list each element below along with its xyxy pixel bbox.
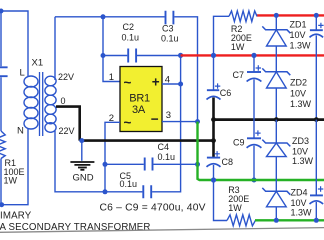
svg-text:~: ~ <box>124 75 132 90</box>
wire R3 riser <box>214 180 228 221</box>
svg-text:3A: 3A <box>132 104 146 116</box>
svg-text:C8: C8 <box>222 157 234 167</box>
ground rail left black <box>80 139 214 142</box>
resistor R1 <box>0 131 5 159</box>
zener ZD3 <box>262 120 290 192</box>
svg-text:ZD2: ZD2 <box>290 77 307 87</box>
svg-text:22V: 22V <box>58 72 74 82</box>
node bottom-left junction <box>0 202 4 207</box>
node black corner <box>211 138 216 143</box>
wire C7 to C9 <box>253 80 255 138</box>
svg-text:ZD1: ZD1 <box>290 19 307 29</box>
node C2 wire tee <box>101 53 106 58</box>
wire C10 bottom <box>315 35 317 119</box>
wire C4 branch <box>105 163 198 165</box>
wire R2 riser <box>214 16 230 55</box>
node gnd tee <box>79 138 84 143</box>
node top-left <box>0 9 4 14</box>
svg-text:N: N <box>17 126 24 137</box>
node C10 black <box>314 117 319 122</box>
rail green upper <box>198 122 324 180</box>
svg-text:1W: 1W <box>228 203 242 213</box>
transformer X1 secondary winding <box>45 76 56 132</box>
rail red top right <box>257 14 324 16</box>
wire C11 bottom <box>315 202 317 220</box>
svg-text:C9: C9 <box>233 138 245 148</box>
wire secondary top tap riser <box>54 17 56 80</box>
wire top-left to primary <box>1 11 28 76</box>
svg-text:ZD4: ZD4 <box>291 188 308 198</box>
node C4 right on green <box>195 162 200 167</box>
svg-text:3: 3 <box>166 110 171 121</box>
svg-text:~: ~ <box>124 115 132 130</box>
svg-text:10V: 10V <box>292 146 308 156</box>
svg-text:1: 1 <box>109 72 114 83</box>
svg-text:−: − <box>151 112 159 127</box>
node pin3 green <box>195 119 200 124</box>
node C5 / pin2 tee <box>103 189 108 194</box>
node ZD2 black <box>274 117 279 122</box>
svg-text:0.1u: 0.1u <box>161 34 179 44</box>
node C11 green <box>314 218 319 223</box>
capacitor C4 <box>145 158 153 171</box>
capacitor C11 electrolytic right bottom <box>315 120 317 195</box>
svg-text:10V: 10V <box>291 198 307 208</box>
node top rail / pin1 riser <box>101 14 106 19</box>
svg-text:C4: C4 <box>158 142 170 152</box>
svg-text:C7: C7 <box>233 70 245 80</box>
zener ZD1 <box>262 15 290 71</box>
svg-text:C6 – C9 = 4700u, 40V: C6 – C9 = 4700u, 40V <box>100 203 206 214</box>
capacitor C8 electrolytic <box>212 141 215 157</box>
svg-text:X1: X1 <box>32 58 44 69</box>
node C7 red <box>251 53 256 58</box>
wire center tap black <box>56 107 80 141</box>
svg-text:1W: 1W <box>4 175 18 185</box>
wire pin4 to riser and down to C5 <box>152 55 181 191</box>
svg-text:1W: 1W <box>231 42 245 52</box>
capacitor C10 electrolytic right top <box>315 15 317 29</box>
svg-text:GND: GND <box>73 173 94 184</box>
svg-text:10V: 10V <box>290 88 306 98</box>
node red rail start <box>178 53 183 58</box>
capacitor C1 (cropped at left edge) <box>0 67 8 76</box>
wire primary bottom lead <box>1 129 28 205</box>
transformer X1 primary winding <box>24 76 38 129</box>
wire pin2 down <box>105 122 120 192</box>
transformer core <box>40 72 43 136</box>
svg-text:ZD3: ZD3 <box>292 136 309 146</box>
svg-text:+: + <box>152 75 160 90</box>
capacitor C3 <box>166 11 174 25</box>
bridge rectifier U BR1 <box>120 67 162 132</box>
svg-text:1.3W: 1.3W <box>290 41 312 51</box>
svg-text:0.1u: 0.1u <box>158 152 176 162</box>
wire bottom rail from secondary <box>55 131 142 192</box>
ground symbol <box>81 141 83 161</box>
svg-text:C2: C2 <box>123 22 135 32</box>
wire top rail <box>55 17 198 122</box>
svg-text:L: L <box>20 67 25 78</box>
node pin4 riser <box>178 82 183 87</box>
svg-text:0: 0 <box>61 96 66 106</box>
wire pin1 riser <box>103 17 120 82</box>
svg-text:1.3W: 1.3W <box>290 99 312 109</box>
wire C8 bottom <box>213 165 215 180</box>
svg-text:0.1u: 0.1u <box>120 179 138 189</box>
svg-text:22V: 22V <box>59 126 75 136</box>
rail green lower <box>255 219 324 221</box>
capacitor C7 electrolytic <box>253 55 255 71</box>
wire left edge vertical <box>0 11 2 205</box>
svg-text:0.1u: 0.1u <box>122 32 140 42</box>
node green/C8/R3 <box>211 177 216 182</box>
resistor R2 <box>229 11 257 22</box>
rail red main <box>181 54 324 56</box>
zener ZD2 <box>262 68 290 119</box>
svg-text:BR1: BR1 <box>129 93 150 105</box>
capacitor C6 electrolytic <box>213 55 215 89</box>
svg-text:C6: C6 <box>220 88 232 98</box>
svg-text:1.3W: 1.3W <box>292 156 314 166</box>
node C4 left <box>103 162 108 167</box>
svg-text:IMARY: IMARY <box>0 211 32 222</box>
rail black right <box>214 118 324 121</box>
capacitor C5 <box>143 185 151 198</box>
svg-text:1.3W: 1.3W <box>291 208 313 218</box>
node C9 green <box>252 178 257 183</box>
node red/R2 <box>211 53 216 58</box>
resistor R3 <box>227 215 256 226</box>
wire C2 branch <box>103 55 181 57</box>
node ZD4 green <box>274 218 279 223</box>
svg-text:C3: C3 <box>162 24 174 34</box>
svg-text:10V: 10V <box>290 30 306 40</box>
zener ZD4 <box>262 188 290 220</box>
capacitor C9 electrolytic <box>247 137 261 139</box>
wire C9 bottom <box>253 146 255 180</box>
capacitor C2 <box>128 49 136 63</box>
wire pin3 to green <box>162 121 198 123</box>
border bottom <box>0 228 324 233</box>
node black tee left <box>211 117 216 122</box>
wire C6 bottom black <box>212 98 215 141</box>
